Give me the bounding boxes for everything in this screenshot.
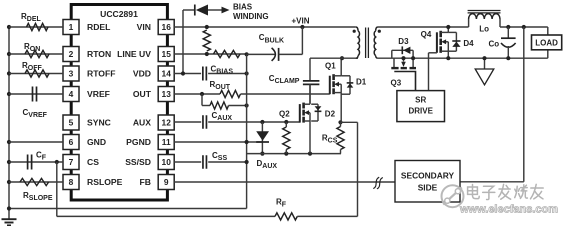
svg-text:VREF: VREF — [87, 89, 110, 99]
node on left rail — [7, 206, 11, 210]
pin 2 RTON box — [63, 47, 79, 62]
resistor RF — [275, 213, 297, 220]
svg-text:D4: D4 — [463, 39, 474, 48]
wire pin10 SS — [174, 161, 201, 163]
wire Q1 drain up — [340, 58, 342, 76]
node pulldown gnd — [245, 103, 249, 107]
transistor Q4 — [436, 32, 438, 53]
wire pulldown a — [202, 105, 210, 107]
svg-text:SS/SD: SS/SD — [125, 157, 151, 167]
svg-text:6: 6 — [69, 137, 74, 147]
arrow to bias winding — [222, 7, 230, 14]
node out split — [200, 92, 204, 96]
svg-text:15: 15 — [162, 49, 172, 59]
ground symbol secondary — [475, 69, 494, 85]
pin 7 CS box — [63, 155, 79, 170]
wire Q4 gate lead — [429, 52, 437, 54]
node Co bottom — [506, 56, 510, 60]
node divider mid — [205, 52, 209, 56]
svg-text:LOAD: LOAD — [535, 39, 558, 48]
svg-text:RSLOPE: RSLOPE — [87, 177, 123, 187]
resistor RCS — [337, 127, 344, 150]
capacitor Co — [507, 27, 509, 38]
diode D1 — [341, 75, 350, 77]
wire RCS top — [340, 122, 342, 126]
resistor Q2 gate-src — [283, 127, 290, 150]
transformer core — [365, 28, 367, 59]
node Q3 source — [411, 56, 415, 60]
wire CF riser — [56, 162, 58, 216]
wire pin13 OUT — [174, 93, 220, 95]
svg-text:VIN: VIN — [137, 22, 151, 32]
block SR DRIVE — [397, 91, 445, 122]
node Q2 gate — [284, 120, 288, 124]
wire pin6 GND — [9, 141, 63, 143]
wire pin11 PGND — [174, 141, 262, 143]
pin 10 SS/SD box — [158, 155, 174, 170]
resistor ROFF — [25, 70, 49, 77]
wire +VIN drop — [301, 27, 303, 54]
wire VIN rail — [174, 26, 356, 28]
resistor RDEL — [27, 23, 49, 30]
svg-text:SIDE: SIDE — [418, 182, 438, 192]
resistor line-uv upper — [203, 30, 210, 51]
svg-text:VDD: VDD — [133, 69, 151, 79]
svg-text:7: 7 — [69, 157, 74, 167]
svg-text:FB: FB — [140, 177, 151, 187]
pin 15 LINE UV box — [158, 47, 174, 62]
wire pin1 — [9, 26, 63, 28]
pin 16 VIN box — [158, 20, 174, 35]
diode bias winding — [194, 5, 196, 16]
IC U1 UCC2891 body outline — [71, 5, 167, 201]
svg-text:14: 14 — [162, 69, 172, 79]
wire primary bottom — [310, 57, 358, 59]
wire CBULK left — [247, 53, 275, 55]
svg-text:AUX: AUX — [133, 118, 151, 128]
wire after Lo — [500, 26, 548, 28]
wire Q4 source down — [447, 51, 449, 58]
capacitor CBIAS — [202, 67, 204, 81]
diode DAUX — [261, 122, 263, 154]
node on left rail — [7, 25, 11, 29]
svg-text:Lo: Lo — [479, 25, 489, 34]
node on left rail — [7, 71, 11, 75]
wire clamp top — [309, 58, 311, 81]
wire pin14 VDD — [174, 73, 201, 75]
pin 14 VDD box — [158, 66, 174, 81]
node rail-gateR — [284, 152, 288, 156]
wire load bottom — [547, 50, 549, 58]
diode D2 — [311, 103, 318, 105]
svg-text:11: 11 — [162, 137, 171, 147]
svg-text:12: 12 — [162, 118, 172, 128]
node CS sense — [338, 120, 342, 124]
svg-text:RDEL: RDEL — [87, 22, 110, 32]
resistor line-uv lower — [214, 50, 241, 57]
wire CBIAS right — [208, 73, 247, 75]
wire pin15 LINE UV — [174, 53, 247, 55]
svg-text:10: 10 — [162, 157, 172, 167]
watermark logo — [442, 185, 464, 207]
svg-text:CS: CS — [87, 157, 99, 167]
wire clamp bottom — [309, 84, 311, 103]
pin 12 AUX box — [158, 115, 174, 130]
node on left rail — [7, 180, 11, 184]
svg-text:Q1: Q1 — [325, 62, 336, 71]
transistor Q1 — [329, 76, 331, 95]
wire Q2 source down — [309, 121, 311, 154]
wire Q4 drain up — [447, 27, 449, 32]
capacitor CCLAMP — [303, 80, 320, 82]
node Q4 drain — [446, 25, 450, 29]
svg-text:D2: D2 — [325, 109, 336, 118]
transformer primary dot — [353, 30, 356, 33]
resistor ROUT — [220, 90, 241, 97]
svg-text:SECONDARY: SECONDARY — [401, 171, 455, 181]
svg-text:UCC2891: UCC2891 — [100, 9, 138, 19]
node Co top — [506, 25, 510, 29]
capacitor CBULK — [272, 48, 276, 61]
svg-text:Q4: Q4 — [421, 30, 432, 39]
svg-text:5: 5 — [69, 118, 74, 128]
left ground rail — [8, 27, 10, 219]
ground symbol — [2, 218, 17, 220]
pin 3 RTOFF box — [63, 66, 79, 81]
wire pin2 — [9, 53, 63, 55]
svg-text:SYNC: SYNC — [87, 118, 111, 128]
resistor RON — [25, 50, 49, 57]
wire gnd stub — [484, 58, 486, 69]
transformer secondary dot — [378, 30, 381, 33]
svg-text:OUT: OUT — [133, 89, 152, 99]
node input return top — [245, 52, 249, 56]
resistor gate pulldown — [210, 102, 229, 109]
svg-text:13: 13 — [162, 89, 172, 99]
svg-text:RTON: RTON — [87, 49, 111, 59]
svg-text:D3: D3 — [398, 37, 409, 46]
wire bias arrow — [208, 9, 222, 11]
wire SS right — [208, 161, 246, 163]
transformer secondary winding — [376, 27, 378, 31]
node pgnd rail — [245, 140, 249, 144]
node VDD bias — [181, 71, 185, 75]
wire pin4 — [9, 93, 63, 95]
wire CS bottom a — [57, 215, 275, 217]
svg-text:www.elecfans.com: www.elecfans.com — [459, 203, 558, 215]
wire pulldown b — [229, 105, 247, 107]
wire pin9 FB — [174, 181, 395, 183]
wire pin3 — [9, 73, 63, 75]
wire secondary top rail — [378, 26, 469, 28]
pin 11 PGND box — [158, 135, 174, 150]
wire RCS bottom — [340, 150, 342, 154]
node on left rail — [7, 52, 11, 56]
svg-text:Q2: Q2 — [279, 109, 290, 118]
wire clamp pgnd rail — [247, 153, 341, 155]
capacitor CAUX — [202, 115, 204, 129]
pin 4 VREF box — [63, 87, 79, 102]
node +VIN — [300, 25, 304, 29]
node DAUX top — [260, 120, 264, 124]
svg-text:8: 8 — [69, 177, 74, 187]
svg-text:Co: Co — [489, 40, 500, 49]
node on left rail — [7, 140, 11, 144]
wire load top — [547, 27, 549, 35]
transistor Q2 — [299, 104, 301, 123]
wire AUX right — [208, 121, 300, 123]
wire CS to filter — [341, 121, 358, 123]
node Q1 drain — [340, 56, 344, 60]
wire Q2 drain up — [309, 84, 311, 104]
svg-text:9: 9 — [164, 177, 169, 187]
inductor Lo — [468, 19, 470, 27]
transistor Q3 — [393, 58, 395, 67]
wire OUT to Q1 gate — [241, 93, 330, 95]
svg-text:3: 3 — [69, 69, 74, 79]
node CS filter — [55, 160, 59, 164]
watermark chinese text — [468, 184, 544, 199]
pin 9 FB box — [158, 175, 174, 190]
node CBIAS gnd — [245, 71, 249, 75]
svg-text:2: 2 — [69, 49, 74, 59]
wire pin12 AUX — [174, 121, 201, 123]
isolation break — [373, 177, 379, 188]
wire Q1 source down — [340, 93, 342, 123]
wire fb to secondary box — [460, 181, 524, 183]
svg-text:GND: GND — [87, 137, 106, 147]
svg-text:D1: D1 — [356, 77, 367, 86]
block LOAD — [532, 35, 562, 50]
wire pulldown drop — [201, 94, 203, 106]
svg-text:4: 4 — [69, 89, 74, 99]
pin 13 OUT box — [158, 87, 174, 102]
wire fb drop — [523, 27, 525, 182]
wire primary return — [246, 54, 248, 208]
svg-text:DRIVE: DRIVE — [408, 107, 433, 116]
svg-text:RTOFF: RTOFF — [87, 69, 115, 79]
node DAUX bottom — [260, 152, 264, 156]
node Q3 body — [401, 56, 405, 60]
svg-text:Q3: Q3 — [391, 79, 402, 88]
capacitor CSS — [202, 155, 204, 169]
svg-text:LINE UV: LINE UV — [117, 49, 151, 59]
wire CBULK right — [279, 53, 303, 55]
capacitor CVREF — [32, 87, 34, 102]
resistor RSLOPE — [20, 178, 49, 185]
wire pin7 CS — [9, 161, 63, 163]
wire bias — [183, 9, 195, 11]
transformer primary winding — [356, 27, 358, 31]
pin 6 GND box — [63, 135, 79, 150]
svg-text:SR: SR — [415, 96, 426, 105]
wire CS bottom b — [297, 215, 357, 217]
pin 8 RSLOPE box — [63, 175, 79, 190]
capacitor CF — [27, 155, 29, 170]
wire gate resistor ends — [285, 122, 287, 127]
node on left rail — [7, 92, 11, 96]
node rail-Q2src — [308, 152, 312, 156]
wire secondary bottom rail — [378, 57, 548, 59]
diode D3 — [391, 50, 393, 58]
svg-text:BIAS: BIAS — [233, 2, 253, 11]
wire CS drop — [357, 122, 359, 216]
pin 1 RDEL box — [63, 20, 79, 35]
block SECONDARY SIDE — [395, 161, 460, 203]
wire VDD riser — [182, 10, 184, 74]
svg-text:16: 16 — [162, 22, 172, 32]
wire bottom return — [9, 208, 247, 210]
diode D4 — [448, 31, 456, 33]
node gnd stub — [482, 56, 486, 60]
pin 5 SYNC box — [63, 115, 79, 130]
node output fb — [522, 25, 526, 29]
svg-text:WINDING: WINDING — [233, 12, 269, 21]
wire pin8 — [9, 181, 63, 183]
node Q4 source — [446, 56, 450, 60]
svg-text:1: 1 — [69, 22, 74, 32]
node SS gnd — [245, 160, 249, 164]
node vin-divider — [205, 25, 209, 29]
node on left rail — [7, 160, 11, 164]
svg-text:PGND: PGND — [126, 137, 151, 147]
svg-text:+VIN: +VIN — [291, 16, 309, 25]
